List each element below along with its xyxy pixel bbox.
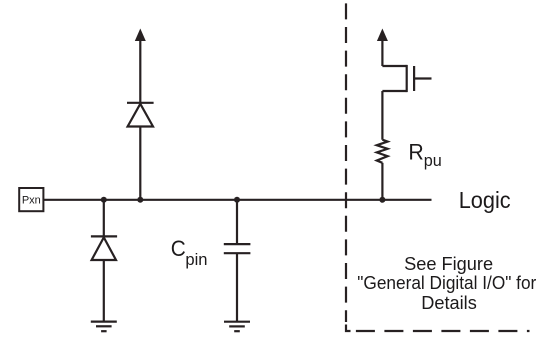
label Cpin [171,236,208,269]
wire: main horizontal net from Pxn pad to logic input [43,199,431,201]
junction dot: bottom clamp diode branch [101,197,107,203]
wire: pin net down to Cpin top plate [236,200,238,244]
svg-text:Details: Details [421,293,477,313]
capacitor Cpin [224,244,251,253]
label Rpu [408,139,441,170]
svg-text:pu: pu [424,152,442,170]
svg-text:C: C [171,236,186,261]
wire: Cpin bottom plate down to ground [236,253,238,322]
diode D2: clamp to GND (cathode up) [91,236,117,260]
dashed boundary of logic block: vertical edge [345,3,347,322]
svg-text:See Figure: See Figure [404,254,493,274]
transistor: PMOS pull-up [382,65,431,92]
ground symbol (under D2) [91,322,117,332]
VCC arrow (top of clamp diode to VCC) [135,29,146,103]
wire: D1 anode down to pin net [139,127,141,200]
junction dot: top clamp diode branch [137,197,143,203]
dashed boundary of logic block: bottom edge [356,330,530,332]
dashed boundary of logic block: corner piece [346,325,351,332]
diode D1: clamp to VCC (cathode up) [127,103,154,127]
resistor Rpu [377,140,388,163]
wire: transistor source down to Rpu [381,91,383,140]
ground symbol (under Cpin) [224,322,250,332]
svg-text:Pxn: Pxn [22,194,41,206]
wire: Rpu bottom down to pin net [381,163,383,200]
svg-text:Logic: Logic [459,187,511,213]
svg-text:pin: pin [185,250,207,269]
junction dot: pull-up branch [379,197,385,203]
wire: pin net down to D2 cathode [103,200,105,238]
VCC arrow (top of pull-up transistor) [377,29,388,67]
svg-text:R: R [408,139,423,164]
port box Pxn [19,188,43,211]
junction dot: Cpin branch [234,197,240,203]
wire: D2 anode down to ground [103,260,105,322]
note: see figure reference [357,254,536,313]
svg-text:"General Digital I/O" for: "General Digital I/O" for [357,273,536,293]
